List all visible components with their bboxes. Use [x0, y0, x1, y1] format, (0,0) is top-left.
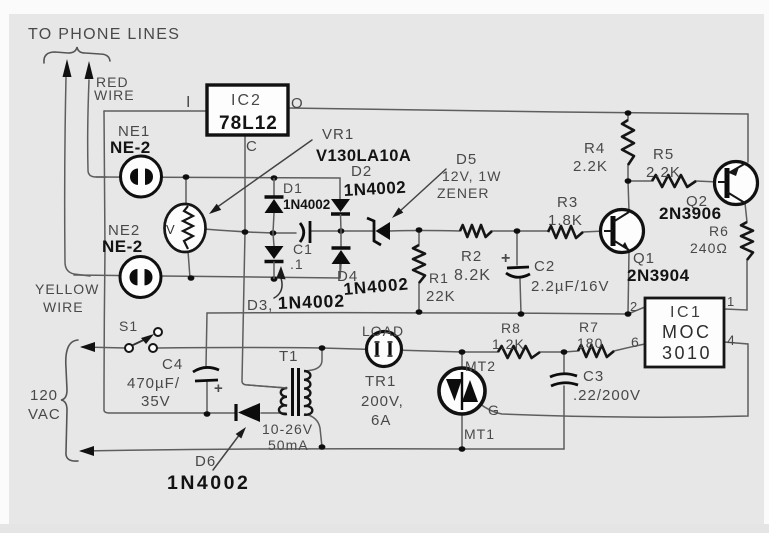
brace 120 VAC — [61, 340, 78, 461]
resistor R5 zigzag — [652, 175, 696, 187]
svg-text:22K: 22K — [426, 288, 456, 305]
resistor R1 zigzag — [413, 245, 425, 283]
resistor R7 zigzag — [578, 345, 614, 357]
svg-text:50mA: 50mA — [268, 437, 309, 453]
resistor R2 zigzag — [460, 225, 492, 237]
svg-text:12V, 1W: 12V, 1W — [442, 168, 501, 184]
wire R4 top lead — [627, 113, 629, 120]
svg-text:VAC: VAC — [28, 406, 61, 423]
svg-text:180: 180 — [577, 335, 603, 351]
wire C2 leads — [517, 231, 521, 314]
diode D6 — [234, 404, 237, 421]
diode D3 (bridge lower left) — [273, 233, 274, 246]
transformer T1 core — [293, 368, 299, 416]
svg-text:8.2K: 8.2K — [454, 267, 491, 284]
svg-text:470µF/: 470µF/ — [127, 375, 180, 392]
svg-text:C4: C4 — [162, 356, 183, 373]
wire R5 row — [628, 181, 718, 182]
svg-text:R6: R6 — [709, 223, 729, 239]
wire NE1 row (tip line to bridge top) — [96, 177, 340, 197]
svg-text:S1: S1 — [119, 318, 138, 334]
svg-text:TR1: TR1 — [365, 373, 396, 390]
node NE1/VR1 — [183, 174, 190, 180]
resistor R4 zigzag — [622, 120, 634, 165]
wire IC1 pin 2 stub — [628, 307, 645, 314]
node R1 bottom — [416, 309, 423, 315]
wire triac MT1 lead — [461, 413, 463, 449]
svg-text:6: 6 — [631, 334, 640, 350]
svg-text:C2: C2 — [534, 258, 555, 275]
wire phone line tip (yellow wire) vertical — [65, 77, 90, 276]
wire VR1 bottom lead — [188, 251, 190, 278]
node triac MT2 / load row — [459, 349, 466, 355]
wire R4 bottom lead / node column — [627, 165, 629, 181]
wire triac gate to IC1 pin 4 — [479, 342, 748, 417]
arrowhead 120VAC hot — [80, 342, 95, 352]
svg-text:MT2: MT2 — [465, 358, 496, 374]
svg-text:2: 2 — [630, 299, 638, 314]
diode D1 (bridge upper left) — [273, 178, 275, 196]
svg-text:R7: R7 — [579, 319, 599, 335]
neon lamp NE2 — [120, 257, 161, 298]
svg-text:YELLOW: YELLOW — [35, 281, 99, 297]
capacitor C3 — [550, 374, 577, 377]
node R2 / C2 top — [514, 228, 521, 234]
arrowhead phone line left — [63, 59, 72, 77]
zener diode D5 — [376, 222, 391, 240]
svg-text:6A: 6A — [371, 412, 391, 429]
node bridge mid right — [338, 228, 345, 234]
wire Q1 collector — [628, 181, 629, 211]
wire top-right corner down to Q2 emitter — [747, 114, 749, 162]
optocoupler IC1 box — [645, 298, 724, 367]
node T1 secondary top / hot row — [319, 345, 326, 351]
wire T1 secondary top lead — [306, 348, 322, 371]
svg-text:2.2µF/16V: 2.2µF/16V — [531, 278, 610, 295]
svg-text:R3: R3 — [557, 194, 578, 211]
resistor R3 zigzag — [548, 226, 583, 238]
arrowhead 120VAC neutral — [79, 446, 94, 456]
svg-text:R8: R8 — [501, 320, 521, 336]
wire T1 secondary bottom lead — [305, 414, 322, 447]
wire C4 bottom lead — [206, 381, 208, 414]
svg-text:D6: D6 — [195, 453, 216, 470]
svg-text:I: I — [186, 94, 191, 111]
svg-text:IC2: IC2 — [231, 92, 262, 109]
node rail / Q1 emitter / IC1 pin2 — [625, 311, 632, 317]
diode D2 (bridge upper right) — [339, 197, 341, 199]
resistor R6 zigzag — [741, 222, 753, 260]
svg-text:D1: D1 — [283, 180, 303, 196]
node bridge mid left — [270, 230, 277, 236]
transistor Q2 2N3906 — [715, 162, 758, 205]
varistor VR1 circle — [165, 204, 206, 252]
svg-text:1N4002: 1N4002 — [167, 472, 250, 494]
wire 120VAC neutral row — [81, 449, 564, 451]
wire D6 to T1 primary — [261, 412, 286, 414]
svg-text:+: + — [501, 250, 511, 267]
svg-text:R5: R5 — [653, 146, 674, 163]
svg-text:1.8K: 1.8K — [548, 212, 583, 229]
node zener / R1 top — [416, 227, 423, 233]
load outlet symbol — [367, 332, 402, 367]
node bridge top left — [271, 175, 278, 181]
node R8 R7 C3 junction — [561, 349, 568, 355]
svg-text:LOAD: LOAD — [362, 323, 404, 339]
svg-text:4: 4 — [727, 332, 736, 348]
svg-text:MT1: MT1 — [464, 426, 495, 442]
svg-text:T1: T1 — [279, 348, 299, 365]
svg-text:WIRE: WIRE — [94, 87, 135, 103]
svg-text:1N4002: 1N4002 — [343, 178, 406, 200]
svg-text:R2: R2 — [461, 248, 482, 265]
svg-text:MOC: MOC — [662, 322, 712, 342]
svg-text:G: G — [488, 402, 500, 418]
voltage regulator IC2 box — [207, 85, 288, 135]
svg-text:3010: 3010 — [662, 343, 712, 363]
svg-text:TO PHONE LINES: TO PHONE LINES — [28, 26, 180, 43]
wire DC rail corner down to C4 plus plate — [206, 313, 207, 366]
capacitor C2 — [507, 267, 529, 268]
svg-text:D5: D5 — [456, 151, 477, 168]
svg-text:2.2K: 2.2K — [573, 158, 608, 175]
wire bridge mid row right (C1 to Q1 base) — [311, 231, 604, 233]
svg-text:C: C — [246, 138, 258, 155]
svg-text:1N4002: 1N4002 — [283, 197, 330, 212]
svg-text:C1: C1 — [293, 241, 313, 257]
svg-text:D2: D2 — [351, 163, 372, 180]
svg-text:VR1: VR1 — [322, 126, 354, 143]
arrow D3 label to symbol — [274, 278, 282, 298]
wire VR1 top lead — [185, 177, 187, 205]
svg-text:240Ω: 240Ω — [690, 240, 728, 256]
svg-text:O: O — [291, 95, 304, 112]
wire NE2 row (ring line to bridge bottom) — [74, 264, 340, 278]
svg-text:IC1: IC1 — [670, 304, 702, 321]
transistor Q1 2N3904 — [601, 210, 644, 253]
arrow D6 label to symbol — [213, 434, 240, 470]
capacitor C1 (series in mid row) — [300, 223, 304, 242]
transformer T1 primary winding — [279, 388, 287, 414]
wire IC2 input from DC supply (left vertical bus) — [104, 111, 236, 413]
node R4 / R5 / Q1 collector — [625, 178, 632, 184]
node triac MT1 / neutral — [459, 446, 466, 452]
svg-text:V: V — [166, 222, 175, 237]
node T1 secondary bottom / neutral — [319, 444, 326, 450]
svg-text:200V,: 200V, — [361, 393, 404, 410]
transformer T1 secondary winding — [304, 371, 312, 415]
diode D4 (bridge lower right) — [340, 231, 342, 247]
wire Q1 emitter down to rail — [628, 251, 629, 314]
svg-text:1.2K: 1.2K — [492, 336, 525, 352]
node C2 bottom — [518, 311, 525, 317]
wire C3 leads — [563, 352, 565, 449]
wire Q2 collector to R6 — [745, 203, 747, 222]
svg-text:2.2K: 2.2K — [646, 164, 681, 181]
svg-text:D3,: D3, — [247, 297, 273, 314]
svg-text:R1: R1 — [429, 270, 449, 286]
svg-text:.1: .1 — [290, 256, 304, 272]
wire phone line ring (red wire) vertical — [88, 80, 106, 177]
svg-text:2N3906: 2N3906 — [659, 204, 722, 223]
capacitor C4 — [193, 367, 219, 372]
svg-text:R4: R4 — [584, 140, 605, 157]
node bridge bottom left — [271, 276, 278, 282]
svg-text:2N3904: 2N3904 — [627, 266, 690, 285]
svg-text:NE-2: NE-2 — [102, 237, 143, 256]
switch S1 — [133, 337, 150, 345]
svg-text:WIRE: WIRE — [43, 299, 84, 315]
svg-text:120: 120 — [30, 387, 58, 404]
wire DC common rail — [207, 313, 628, 314]
arrow VR1 label to symbol — [216, 140, 312, 208]
svg-text:1N4002: 1N4002 — [277, 291, 345, 313]
wire bridge mid row left (VR1 to C1) — [204, 229, 296, 233]
node top rail / R4 — [625, 110, 632, 116]
arrowhead phone line right — [85, 61, 94, 79]
brace to phone lines — [44, 47, 110, 63]
wire triac MT2 lead — [461, 352, 463, 369]
svg-text:35V: 35V — [141, 393, 171, 410]
svg-text:Q1: Q1 — [633, 250, 655, 267]
wire 120VAC hot row through S1 to IC1 pin 6 — [82, 344, 645, 352]
svg-text:C3: C3 — [583, 368, 604, 385]
svg-text:NE-2: NE-2 — [110, 138, 151, 157]
svg-text:.22/200V: .22/200V — [573, 387, 641, 404]
wire R6 to IC1 pin 1 — [724, 260, 747, 310]
svg-text:1: 1 — [727, 294, 735, 309]
neon lamp NE1 — [121, 156, 162, 197]
triac TR1 symbol — [439, 368, 485, 414]
svg-text:+: + — [214, 380, 224, 397]
wire IC2 common down to T1 secondary — [242, 135, 286, 388]
arrow D5 label to symbol — [399, 169, 446, 212]
node VR1 bottom — [188, 275, 195, 281]
VR1 internal zigzag — [183, 206, 193, 249]
svg-text:10-26V: 10-26V — [262, 421, 313, 437]
resistor R8 zigzag — [498, 346, 540, 358]
node IC2 common / bridge mid — [242, 229, 249, 235]
node C4 / D6 cathode — [204, 411, 211, 417]
wire top +12V rail from IC2 output to right corner — [288, 108, 748, 114]
wire IC2 input horizontal — [104, 110, 207, 112]
svg-text:ZENER: ZENER — [437, 185, 489, 201]
svg-text:78L12: 78L12 — [219, 113, 278, 134]
wire R1 leads — [418, 230, 420, 312]
